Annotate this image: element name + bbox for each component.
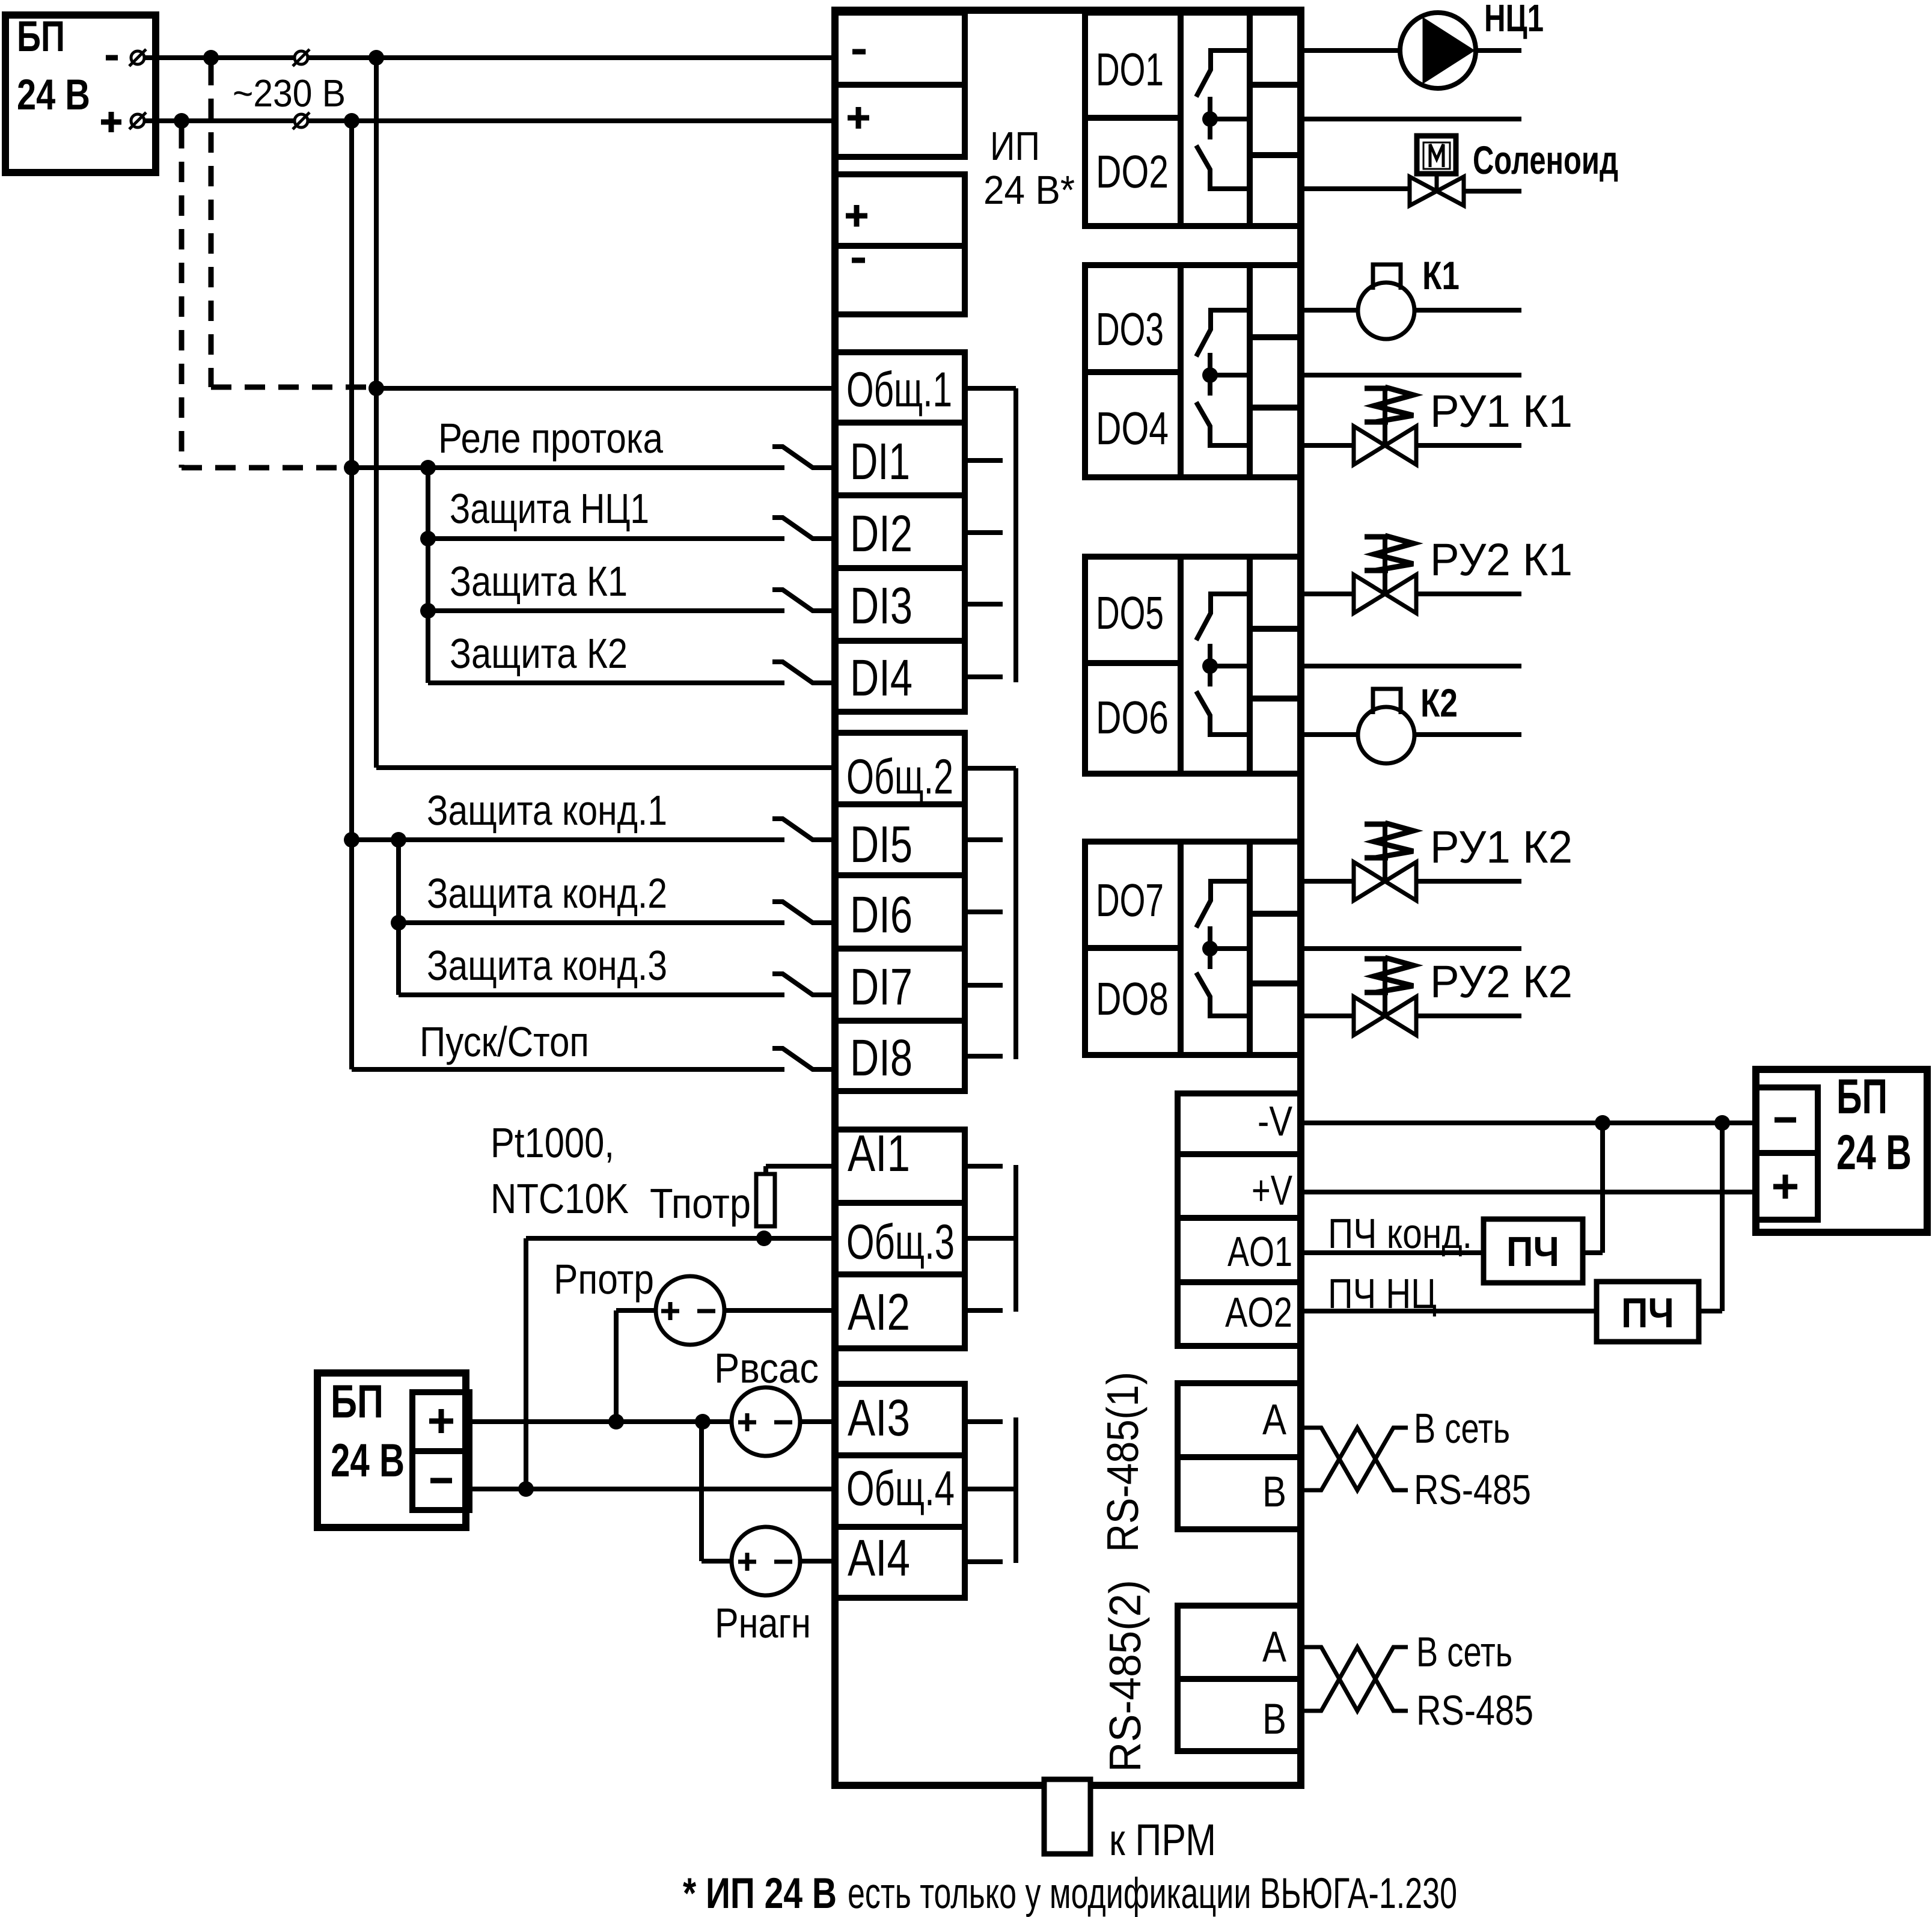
svg-text:Общ.3: Общ.3: [846, 1215, 955, 1270]
wire PCh1 to -V: [1583, 1250, 1603, 1255]
wire branch to Rnagn: [699, 1422, 704, 1561]
internal stub DI7: [965, 983, 1003, 988]
BP3 '-' sign: [1775, 1117, 1796, 1123]
BP2 '+' sign: [429, 1419, 453, 1424]
svg-text:Рвсас: Рвсас: [714, 1345, 819, 1392]
BP2 terminal box: [412, 1392, 469, 1510]
svg-text:В сеть: В сеть: [1414, 1405, 1510, 1452]
internal stub DI6: [965, 910, 1003, 914]
svg-text:+V: +V: [1252, 1167, 1292, 1214]
solenoid valve stem: [1435, 174, 1439, 191]
internal wire Obsh.1 common: [965, 386, 1016, 391]
svg-text:DI6: DI6: [850, 886, 913, 944]
junction dot DI bus top: [420, 460, 436, 475]
relay output group DO5/DO6 box: [1085, 557, 1301, 774]
internal stub DI8: [965, 1054, 1003, 1059]
svg-text:ПЧ НЦ: ПЧ НЦ: [1328, 1270, 1437, 1317]
wire RU2K2 out: [1416, 1014, 1521, 1018]
wire BP2+ to Rvsas: [469, 1419, 732, 1424]
junction dot Obsh.3-minus: [518, 1481, 534, 1497]
terminal box RS-485(1) A/B: [1178, 1383, 1301, 1529]
svg-text:AI4: AI4: [848, 1529, 910, 1587]
svg-text:DO4: DO4: [1096, 403, 1169, 454]
wire DO8 NC to RU2K2: [1301, 1014, 1354, 1018]
wire DI7 Zashchita kond.3: [399, 992, 784, 997]
terminal box Obsh.1/DI1-DI4: [835, 352, 965, 712]
svg-text:Защита НЦ1: Защита НЦ1: [450, 485, 649, 532]
mains screw L2: [295, 114, 308, 127]
junction dot DI2: [420, 531, 436, 546]
solenoid valve M-box: [1417, 136, 1456, 174]
junction dot DI3: [420, 603, 436, 619]
relay output group DO3/DO4 box: [1085, 265, 1301, 477]
svg-text:БП: БП: [17, 13, 65, 61]
svg-text:-V: -V: [1258, 1098, 1292, 1145]
junction dot plus-bus: [344, 113, 359, 129]
svg-text:Pt1000,: Pt1000,: [491, 1119, 614, 1166]
terminal '+' sign 2: [846, 213, 867, 219]
junction dot minus-obsh1: [368, 381, 384, 396]
junction dot -V/PCh1: [1595, 1115, 1610, 1131]
twisted pair RS1 line B: [1301, 1428, 1408, 1490]
relay contact DO3/DO4: [1196, 310, 1248, 356]
svg-text:24 В: 24 В: [1836, 1125, 1912, 1180]
junction dot minus-dashed: [203, 50, 219, 66]
svg-text:Общ.1: Общ.1: [846, 362, 952, 417]
svg-text:DI8: DI8: [850, 1029, 913, 1087]
svg-text:RS-485(2): RS-485(2): [1100, 1580, 1150, 1772]
wire AO1 to PCh1: [1301, 1250, 1484, 1255]
wire solenoid out: [1463, 189, 1521, 194]
internal wire Obsh.2 common: [965, 766, 1016, 771]
BP3 '+' sign: [1773, 1184, 1797, 1190]
junction dot plus-kond1: [344, 832, 359, 848]
power supply BP3 box: [1756, 1069, 1927, 1232]
svg-text:РУ1 К1: РУ1 К1: [1430, 386, 1573, 437]
junction dot plus-DI1: [344, 460, 359, 475]
svg-text:к ПРМ: к ПРМ: [1109, 1815, 1216, 1865]
svg-text:В: В: [1262, 1695, 1286, 1743]
power terminal box -/+: [835, 13, 965, 157]
svg-text:DI7: DI7: [850, 958, 913, 1016]
BP2 '-' sign: [430, 1478, 452, 1484]
wire to Obsh.2: [376, 765, 835, 770]
wire Obsh.1: [376, 386, 835, 391]
wire BP1- to mains screw: [144, 55, 295, 60]
svg-text:ПЧ конд.: ПЧ конд.: [1328, 1210, 1472, 1257]
terminal box AI3/Obsh.4/AI4: [835, 1384, 965, 1598]
bus kond2-kond3: [396, 840, 401, 995]
source Rvsas: [732, 1387, 800, 1456]
wire DI5 Zashchita kond.1: [352, 837, 784, 842]
wire DI1 Rele protoka: [352, 465, 784, 470]
svg-text:Защита конд.2: Защита конд.2: [427, 870, 667, 917]
wire RU1K1 out: [1416, 443, 1521, 448]
bus plus vertical: [349, 121, 354, 1069]
svg-text:ПЧ: ПЧ: [1621, 1289, 1674, 1336]
svg-text:DO6: DO6: [1096, 692, 1169, 744]
wire mains to block '+' terminal: [308, 118, 835, 123]
relay output group DO7/DO8 box: [1085, 842, 1301, 1055]
wire Rnagn to AI4: [800, 1559, 835, 1564]
svg-text:Реле протока: Реле протока: [438, 415, 663, 462]
bus DI2-DI4: [426, 468, 430, 683]
terminal box RS-485(2) A/B: [1178, 1606, 1301, 1751]
solenoid valve bowtie: [1410, 177, 1437, 206]
internal stub DI4: [965, 674, 1003, 679]
twisted pair RS2 line B: [1301, 1647, 1408, 1711]
power supply BP2 box: [317, 1373, 466, 1527]
svg-text:К1: К1: [1422, 253, 1460, 298]
BP1 terminal '+' sign: [101, 120, 121, 125]
svg-text:А: А: [1262, 1396, 1286, 1444]
compressor K1: [1358, 283, 1414, 339]
solenoid valve RU1 K1: [1354, 426, 1385, 465]
wire pump out: [1476, 48, 1521, 53]
connector to PRM: [1044, 1779, 1090, 1854]
relay output group DO1/DO2 box: [1085, 13, 1301, 226]
wire DO4 NC to RU1K1: [1301, 443, 1354, 448]
internal bus AI group1: [1013, 1165, 1018, 1312]
wire Rpotr to AI2: [723, 1308, 835, 1313]
BP3 terminal box: [1756, 1087, 1818, 1220]
wire DO2 NC to solenoid: [1301, 186, 1410, 191]
wire +V to BP3: [1301, 1190, 1756, 1194]
wire mains to block '-' terminal: [308, 55, 835, 60]
svg-text:* ИП 24 Весть только у модифик: * ИП 24 Весть только у модификации ВЬЮГА…: [683, 1870, 1457, 1917]
wire DI2 Zashchita NC1: [428, 536, 784, 541]
svg-text:24 В: 24 В: [17, 71, 90, 119]
wire K1 out: [1414, 308, 1521, 313]
internal stub DI3: [965, 602, 1003, 607]
wire DO5 NO to RU2K1: [1301, 592, 1354, 596]
compressor K2: [1358, 707, 1414, 763]
svg-text:А: А: [1262, 1623, 1286, 1671]
svg-text:РУ1 К2: РУ1 К2: [1430, 822, 1573, 873]
BP1 terminal '-' screw: [131, 51, 144, 64]
wire Obsh.3 common: [526, 1236, 835, 1241]
svg-text:DO7: DO7: [1096, 875, 1164, 926]
internal stub DI1: [965, 458, 1003, 463]
wire BP1+ to mains screw: [144, 118, 295, 123]
solenoid valve RU2 K2: [1354, 997, 1385, 1035]
wire RU2K1 out: [1416, 592, 1521, 596]
internal stub DI2: [965, 530, 1003, 535]
relay contact DO1/DO2: [1196, 50, 1248, 97]
internal stub AI2: [965, 1308, 1003, 1313]
solenoid valve RU1 K2: [1354, 862, 1385, 900]
wire DO7 COM stub: [1301, 946, 1521, 951]
svg-text:24 В: 24 В: [331, 1434, 405, 1487]
svg-text:БП: БП: [1836, 1069, 1888, 1124]
wire DO3 COM stub: [1301, 373, 1521, 378]
svg-text:24 В*: 24 В*: [983, 168, 1075, 213]
wire DO7 NO to RU1K2: [1301, 879, 1354, 884]
svg-text:RS-485: RS-485: [1414, 1466, 1531, 1513]
wire RU1K2 out: [1416, 879, 1521, 884]
svg-text:RS-485: RS-485: [1416, 1687, 1533, 1734]
junction dot minus-bus: [368, 50, 384, 66]
svg-text:~230 В: ~230 В: [233, 72, 346, 115]
wire K2 out: [1414, 732, 1521, 737]
terminal '-' sign 2: [852, 258, 865, 263]
svg-text:Общ.2: Общ.2: [846, 750, 953, 804]
junction dot plus-dashed: [174, 113, 189, 129]
svg-text:Соленоид: Соленоид: [1473, 138, 1618, 182]
svg-text:РУ2 К1: РУ2 К1: [1430, 534, 1573, 585]
internal stub DI5: [965, 837, 1003, 842]
frequency drive PCh1: [1484, 1219, 1583, 1283]
wire Rpotr to plus: [616, 1308, 655, 1313]
junction dot Rpotr-plus: [608, 1414, 624, 1429]
svg-text:AO2: AO2: [1225, 1289, 1292, 1336]
svg-text:DI1: DI1: [850, 433, 910, 491]
dashed wire from plus: [179, 128, 185, 468]
svg-text:DO2: DO2: [1096, 146, 1169, 198]
svg-text:AI1: AI1: [848, 1125, 910, 1182]
controller main block outline: [835, 10, 1301, 1785]
wire BP2- to Obsh.4: [469, 1487, 835, 1491]
wire AO2 to PCh2: [1301, 1309, 1597, 1313]
power terminal box +/- (IP24): [835, 174, 965, 314]
wire DO1 NO to pump: [1301, 48, 1400, 53]
svg-text:Защита конд.3: Защита конд.3: [427, 942, 667, 989]
terminal '+' sign: [848, 115, 869, 121]
svg-text:Защита К1: Защита К1: [450, 558, 628, 605]
svg-text:К2: К2: [1420, 680, 1458, 725]
svg-text:Рпотр: Рпотр: [554, 1256, 654, 1303]
wire DI6 Zashchita kond.2: [399, 920, 784, 925]
wire DO5 COM stub: [1301, 664, 1521, 668]
junction dot resistor-Obsh.3: [756, 1231, 772, 1246]
bus minus vertical: [374, 58, 379, 768]
junction dot branch Rnagn: [695, 1414, 711, 1429]
BP1 terminal '+' screw: [131, 114, 144, 127]
mains screw L1: [295, 51, 308, 64]
internal stub AI3: [965, 1419, 1003, 1424]
svg-text:NTC10K: NTC10K: [491, 1175, 629, 1222]
svg-text:AO1: AO1: [1227, 1228, 1292, 1275]
svg-text:DO1: DO1: [1096, 44, 1164, 96]
relay contact DO5/DO6: [1196, 594, 1248, 640]
svg-text:DI5: DI5: [850, 816, 913, 873]
source Rnagn: [732, 1527, 800, 1595]
resistor Tpotr: [756, 1174, 775, 1226]
wire PCh2 to -V: [1699, 1309, 1722, 1313]
svg-text:DO5: DO5: [1096, 587, 1164, 639]
svg-text:AI2: AI2: [848, 1283, 910, 1341]
junction dot kond bus top: [391, 832, 406, 848]
svg-text:Защита конд.1: Защита конд.1: [427, 787, 667, 834]
svg-text:DO3: DO3: [1096, 304, 1164, 355]
svg-text:RS-485(1): RS-485(1): [1098, 1372, 1148, 1552]
terminal '-' sign: [852, 49, 866, 55]
relay contact DO7/DO8: [1196, 881, 1248, 928]
svg-text:В: В: [1262, 1468, 1286, 1516]
wire Pusk/Stop: [352, 1067, 784, 1072]
dashed wire from minus: [209, 65, 214, 387]
svg-text:Тпотр: Тпотр: [650, 1180, 751, 1227]
internal bus AI group2: [1013, 1417, 1018, 1563]
wire DI4 Zashchita K2: [428, 680, 784, 685]
svg-text:ПЧ: ПЧ: [1506, 1228, 1559, 1275]
solenoid valve RU2 K1: [1354, 575, 1385, 613]
svg-text:DI3: DI3: [850, 577, 913, 635]
internal stub Obsh.4: [965, 1487, 1016, 1491]
BP1 terminal '-' sign: [106, 55, 118, 61]
svg-text:НЦ1: НЦ1: [1484, 0, 1544, 40]
svg-text:Защита К2: Защита К2: [450, 630, 628, 677]
wire DO1 COM stub: [1301, 117, 1521, 121]
wire DO6 NC to K2: [1301, 732, 1358, 737]
twisted pair RS2 line A: [1301, 1647, 1408, 1711]
junction dot kond2: [391, 915, 406, 931]
wire Rvsas to AI3: [799, 1419, 835, 1424]
wire DI3 Zashchita K1: [428, 608, 784, 613]
twisted pair RS1 line A: [1301, 1428, 1408, 1490]
junction dot -V/PCh2: [1714, 1115, 1730, 1131]
svg-text:БП: БП: [331, 1375, 384, 1428]
terminal box AI1/Obsh.3/AI2: [835, 1130, 965, 1348]
svg-text:Рнагн: Рнагн: [715, 1600, 811, 1646]
internal stub Obsh.3: [965, 1236, 1016, 1241]
svg-text:DI2: DI2: [850, 505, 913, 563]
svg-text:ИП: ИП: [990, 124, 1040, 169]
svg-text:Общ.4: Общ.4: [846, 1461, 955, 1516]
wire DO3 NO to K1: [1301, 308, 1358, 313]
terminal box Obsh.2/DI5-DI8: [835, 733, 965, 1091]
terminal box -V/+V/AO1/AO2: [1178, 1093, 1301, 1346]
power supply BP1 box: [5, 15, 156, 173]
internal stub AI4: [965, 1559, 1003, 1564]
pump NC1: [1400, 13, 1476, 88]
svg-text:DO8: DO8: [1096, 973, 1169, 1025]
internal stub AI1: [965, 1164, 1003, 1169]
svg-text:Пуск/Стоп: Пуск/Стоп: [420, 1018, 589, 1065]
wire resistor to AI1: [763, 1166, 768, 1174]
svg-text:DI4: DI4: [850, 649, 913, 707]
svg-text:В сеть: В сеть: [1416, 1628, 1512, 1675]
source Rpotr: [656, 1276, 724, 1345]
wire Obsh.3 down to minus: [524, 1238, 528, 1489]
svg-text:AI3: AI3: [848, 1389, 910, 1447]
wire -V to BP3: [1301, 1121, 1756, 1125]
frequency drive PCh2: [1597, 1282, 1699, 1342]
svg-text:РУ2 К2: РУ2 К2: [1430, 956, 1573, 1007]
